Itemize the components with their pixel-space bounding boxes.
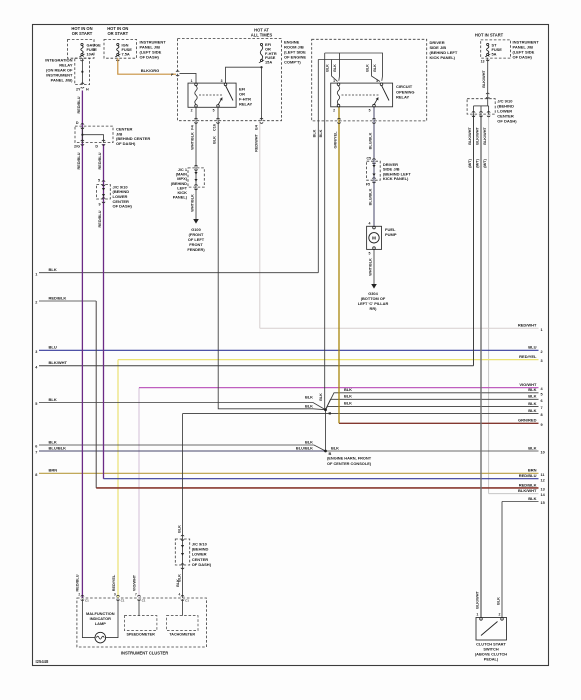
svg-text:BRN: BRN <box>528 468 537 473</box>
svg-text:(M/T): (M/T) <box>468 158 472 167</box>
svg-text:11: 11 <box>541 473 545 477</box>
svg-text:BLK/ORG: BLK/ORG <box>141 68 159 73</box>
svg-text:5A: 5A <box>492 51 497 56</box>
svg-text:BLU/BLK: BLU/BLK <box>369 188 373 205</box>
svg-text:3: 3 <box>541 359 543 363</box>
svg-text:10A: 10A <box>87 51 94 56</box>
svg-text:C5: C5 <box>367 157 372 161</box>
svg-text:BLK: BLK <box>373 64 377 72</box>
svg-text:RED/BLU: RED/BLU <box>98 210 102 227</box>
svg-text:INSTRUMENT CLUSTER: INSTRUMENT CLUSTER <box>121 651 168 656</box>
svg-text:SPEEDOMETER: SPEEDOMETER <box>126 633 155 637</box>
svg-text:PANEL): PANEL) <box>173 195 188 200</box>
svg-text:2: 2 <box>333 108 335 112</box>
svg-text:5: 5 <box>213 109 215 113</box>
svg-text:4: 4 <box>369 222 371 226</box>
svg-text:PEDAL): PEDAL) <box>484 656 499 661</box>
svg-text:BLK: BLK <box>305 439 313 444</box>
svg-text:C16: C16 <box>213 124 217 131</box>
svg-text:7: 7 <box>135 593 137 597</box>
svg-text:BRN: BRN <box>49 468 58 473</box>
svg-text:BLK/WHT: BLK/WHT <box>49 360 68 365</box>
svg-text:B: B <box>329 411 332 416</box>
svg-text:OF CENTER CONSOLE): OF CENTER CONSOLE) <box>327 461 372 466</box>
svg-text:RED/WHT: RED/WHT <box>255 133 259 151</box>
svg-text:5: 5 <box>541 392 543 396</box>
svg-text:BLK: BLK <box>344 387 352 392</box>
svg-text:9: 9 <box>541 423 543 427</box>
svg-text:RED/BLK: RED/BLK <box>49 295 67 300</box>
svg-text:2: 2 <box>541 350 543 354</box>
svg-text:2: 2 <box>499 613 501 617</box>
svg-text:KICK PANEL): KICK PANEL) <box>430 55 456 60</box>
svg-text:BLK: BLK <box>49 267 57 272</box>
svg-text:F5: F5 <box>366 182 370 186</box>
svg-text:5: 5 <box>369 108 371 112</box>
svg-text:RED/BLU: RED/BLU <box>519 473 537 478</box>
svg-text:6: 6 <box>35 445 37 449</box>
svg-text:BLU: BLU <box>49 345 57 350</box>
svg-text:OF DASH): OF DASH) <box>140 55 160 60</box>
svg-text:BLK: BLK <box>177 525 181 533</box>
svg-text:ALL TIMES: ALL TIMES <box>251 32 273 37</box>
svg-text:7: 7 <box>541 406 543 410</box>
svg-text:1: 1 <box>35 272 37 276</box>
svg-text:9: 9 <box>98 203 100 207</box>
svg-text:15A: 15A <box>265 60 272 65</box>
svg-text:LAMP: LAMP <box>95 621 106 626</box>
svg-text:2/G: 2/G <box>74 145 80 149</box>
svg-text:BLK/WHT: BLK/WHT <box>482 70 486 88</box>
svg-text:C1: C1 <box>85 599 89 603</box>
svg-text:CIRCUIT: CIRCUIT <box>396 84 413 89</box>
svg-text:7.5A: 7.5A <box>122 51 130 56</box>
svg-text:OR START: OR START <box>72 31 93 36</box>
svg-text:13: 13 <box>481 60 485 64</box>
svg-text:D: D <box>76 121 79 125</box>
svg-text:RED/BLU: RED/BLU <box>98 152 102 169</box>
svg-text:BLK: BLK <box>305 395 313 400</box>
svg-text:1: 1 <box>541 328 543 332</box>
svg-text:12: 12 <box>541 478 545 482</box>
svg-text:BLK: BLK <box>49 397 57 402</box>
svg-text:WHT/BLK: WHT/BLK <box>191 194 195 212</box>
svg-text:RELAY: RELAY <box>396 95 410 100</box>
svg-text:H: H <box>86 87 89 91</box>
svg-text:GRN/YEL: GRN/YEL <box>333 131 337 149</box>
svg-text:BLK/WHT: BLK/WHT <box>518 488 537 493</box>
svg-text:RELAY: RELAY <box>239 102 253 107</box>
svg-text:C1: C1 <box>142 599 146 603</box>
svg-text:OPENING: OPENING <box>396 89 414 94</box>
svg-text:VIO/WHT: VIO/WHT <box>133 574 137 591</box>
svg-text:(M/T): (M/T) <box>475 158 479 167</box>
svg-text:BLK/WHT: BLK/WHT <box>483 127 487 145</box>
svg-text:WHT/BLK: WHT/BLK <box>369 258 373 276</box>
svg-text:COMP'T): COMP'T) <box>284 59 301 64</box>
svg-text:2Y: 2Y <box>76 87 81 91</box>
svg-text:6: 6 <box>541 399 543 403</box>
svg-text:BLK: BLK <box>528 496 536 501</box>
svg-text:BLK: BLK <box>331 445 339 450</box>
svg-text:3: 3 <box>376 79 378 83</box>
svg-text:BLK: BLK <box>333 64 337 72</box>
svg-text:8: 8 <box>35 473 37 477</box>
svg-text:I25448: I25448 <box>36 659 49 664</box>
svg-text:2: 2 <box>191 109 193 113</box>
svg-text:(ENGINE HARN, FRONT: (ENGINE HARN, FRONT <box>327 455 372 460</box>
svg-text:9: 9 <box>114 593 116 597</box>
svg-text:10: 10 <box>541 451 545 455</box>
svg-text:BLK: BLK <box>528 394 536 399</box>
svg-text:RED/YEL: RED/YEL <box>519 354 537 359</box>
svg-text:BLK: BLK <box>49 439 57 444</box>
svg-text:OF DASH): OF DASH) <box>192 562 212 567</box>
svg-text:PANEL J/B): PANEL J/B) <box>51 78 74 83</box>
svg-text:D: D <box>95 145 98 149</box>
svg-text:BLK: BLK <box>344 394 352 399</box>
svg-text:1: 1 <box>191 79 193 83</box>
svg-text:BLK: BLK <box>528 445 536 450</box>
svg-text:WHT/BLK: WHT/BLK <box>191 132 195 150</box>
svg-text:5: 5 <box>369 252 371 256</box>
svg-text:BLK/WHT: BLK/WHT <box>476 591 480 609</box>
svg-text:RED/YEL: RED/YEL <box>112 574 116 591</box>
svg-text:BLU/BLK: BLU/BLK <box>296 445 313 450</box>
svg-text:BLK: BLK <box>497 597 501 605</box>
svg-text:1: 1 <box>333 79 335 83</box>
svg-text:RED/BLU: RED/BLU <box>76 574 80 591</box>
svg-text:OF DASH): OF DASH) <box>497 119 517 124</box>
svg-text:M: M <box>372 236 376 241</box>
svg-text:1: 1 <box>476 613 478 617</box>
svg-text:3: 3 <box>35 350 37 354</box>
svg-text:BLK: BLK <box>528 408 536 413</box>
svg-text:BLK: BLK <box>313 129 317 137</box>
svg-text:GRN/RED: GRN/RED <box>518 418 537 423</box>
svg-text:3: 3 <box>221 79 223 83</box>
svg-text:RR): RR) <box>370 306 378 311</box>
svg-text:BLK: BLK <box>366 64 370 72</box>
svg-text:OF DASH): OF DASH) <box>113 204 133 209</box>
svg-text:15: 15 <box>541 501 545 505</box>
svg-text:13: 13 <box>541 488 545 492</box>
svg-text:BLK: BLK <box>176 579 180 587</box>
svg-text:OF DASH): OF DASH) <box>513 55 533 60</box>
svg-text:TACHOMETER: TACHOMETER <box>169 633 195 637</box>
svg-text:C1: C1 <box>185 599 189 603</box>
svg-text:BLK: BLK <box>344 401 352 406</box>
svg-text:BLK: BLK <box>528 401 536 406</box>
svg-text:KICK PANEL): KICK PANEL) <box>383 176 409 181</box>
svg-text:PUMP: PUMP <box>385 232 397 237</box>
svg-text:RED/WHT: RED/WHT <box>518 323 537 328</box>
svg-text:BLK: BLK <box>319 393 323 401</box>
svg-text:FENDER): FENDER) <box>187 247 205 252</box>
svg-text:BLK: BLK <box>213 136 217 144</box>
svg-text:2: 2 <box>78 593 80 597</box>
svg-text:BLK: BLK <box>326 64 330 72</box>
svg-text:C1: C1 <box>121 599 125 603</box>
svg-text:2: 2 <box>35 301 37 305</box>
svg-text:7: 7 <box>35 451 37 455</box>
svg-text:RED/BLU: RED/BLU <box>77 96 81 113</box>
svg-text:BLU/BLK: BLU/BLK <box>49 445 67 450</box>
svg-text:BLK/WHT: BLK/WHT <box>468 127 472 145</box>
svg-text:BLK/WHT: BLK/WHT <box>475 127 479 145</box>
svg-text:RED/BLU: RED/BLU <box>77 152 81 169</box>
svg-text:BLU/BLK: BLU/BLK <box>369 132 373 149</box>
svg-text:8: 8 <box>541 413 543 417</box>
svg-text:RED/BLK: RED/BLK <box>519 482 537 487</box>
svg-text:HOT IN START: HOT IN START <box>475 33 504 38</box>
svg-text:BLK: BLK <box>319 129 323 137</box>
svg-text:(M/T): (M/T) <box>483 158 487 167</box>
svg-text:5: 5 <box>98 179 100 183</box>
svg-text:OR START: OR START <box>107 31 128 36</box>
svg-text:BLU: BLU <box>528 345 536 350</box>
svg-text:4: 4 <box>179 593 181 597</box>
svg-text:5: 5 <box>35 402 37 406</box>
svg-text:OF DASH): OF DASH) <box>116 141 136 146</box>
svg-text:BLK: BLK <box>528 387 536 392</box>
svg-text:BLK: BLK <box>305 404 313 409</box>
